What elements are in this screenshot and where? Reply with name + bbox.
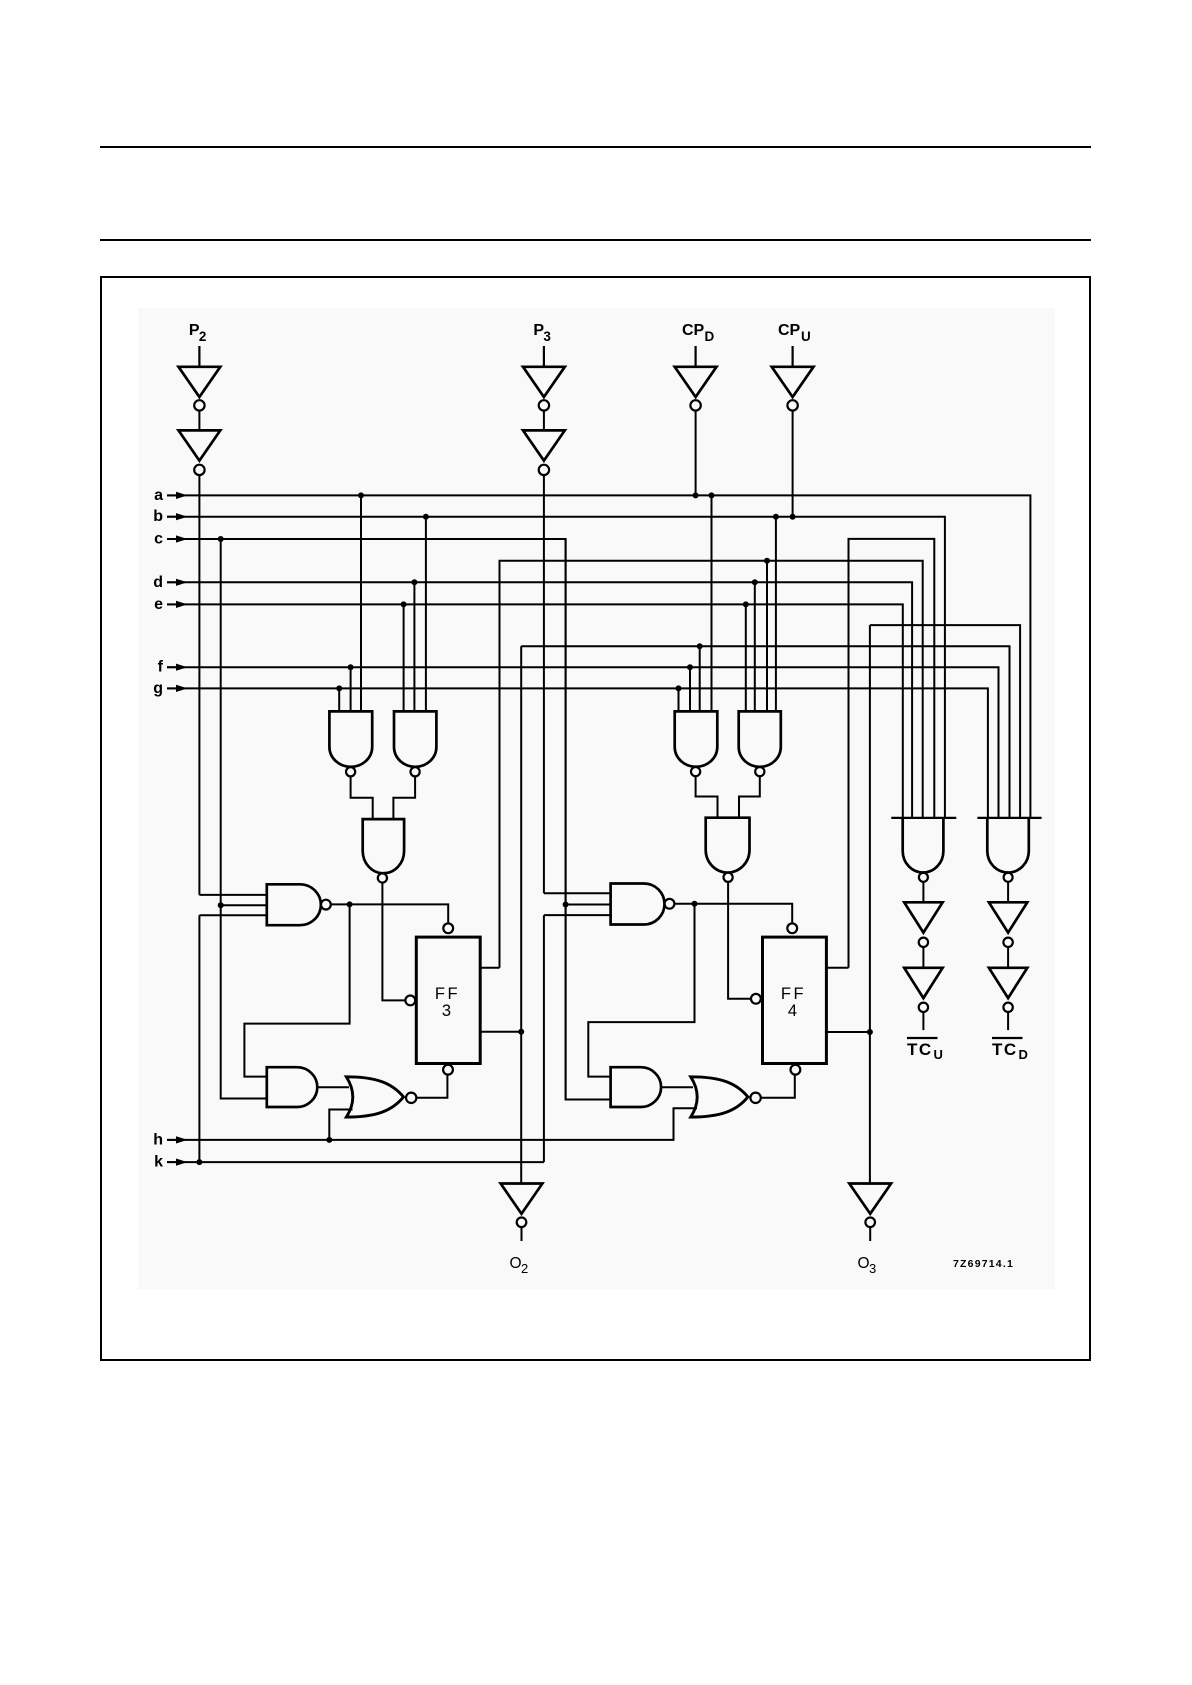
- and gate G3: [675, 711, 718, 766]
- junction h branch to U5: [326, 1137, 332, 1143]
- inverter P2 second output bubble: [194, 465, 204, 475]
- bubble FF4 D left: [751, 994, 761, 1004]
- wire P3 between inverters: [543, 411, 545, 431]
- wire O3 tail: [869, 1227, 871, 1241]
- bubble U5 output: [406, 1093, 416, 1103]
- wire P2 between inverters: [198, 411, 200, 431]
- wire CPU stub into inverter: [791, 346, 793, 367]
- bubble FF4 set bottom: [791, 1065, 801, 1075]
- junction a to G1: [358, 492, 364, 498]
- inverter TCU first: [904, 902, 942, 932]
- wire b drop to gate G2: [425, 517, 427, 712]
- flip-flop FF3 box: [416, 937, 480, 1063]
- wire P3 vertical into NAND U2: [543, 475, 545, 893]
- wire TCU output tail: [922, 1012, 924, 1030]
- inverter TCD second: [989, 968, 1027, 998]
- wire c branch stub to NAND U1 input2: [221, 904, 267, 906]
- wire net FF3-Qbar to G4 and TCU: [500, 561, 923, 968]
- nor gate U6: [691, 1077, 748, 1117]
- wire P2 stub to NAND U1 input1: [199, 894, 266, 896]
- wire net FF3-Qbar branch to gate G4: [766, 561, 768, 712]
- wire G1 output step to gate G5: [351, 777, 373, 820]
- label TCU overline: [907, 1037, 938, 1039]
- wire U1 output to FF3 clock: [331, 904, 448, 923]
- nand gate U2: [611, 884, 665, 925]
- wire k branch vertical from NAND U1 input3: [198, 915, 200, 1162]
- junction net FF3-Q branch: [697, 643, 703, 649]
- wire net FF4-Qbar to TCU: [849, 539, 935, 968]
- svg-text:3: 3: [869, 1261, 876, 1276]
- svg-text:U: U: [934, 1047, 943, 1062]
- junction c branch on line c: [218, 536, 224, 542]
- nand gate U1: [267, 884, 321, 925]
- bubble G2 output: [411, 767, 420, 776]
- svg-text:c: c: [154, 531, 163, 548]
- wire node f: [167, 667, 999, 818]
- wire b drop to gate G4: [775, 517, 777, 712]
- inverter CPU triangle: [772, 367, 814, 397]
- inverter CPD triangle: [675, 367, 717, 397]
- wire TCU gate to first inverter: [922, 882, 924, 903]
- wire node k: [167, 1161, 544, 1163]
- wire FF4 Qbar out right: [826, 967, 848, 969]
- inverter P3 first output bubble: [539, 400, 549, 410]
- bubble G5 output: [378, 873, 387, 882]
- svg-text:2: 2: [521, 1261, 528, 1276]
- junction U1 output branch: [347, 901, 353, 907]
- junction b to G2: [423, 514, 429, 520]
- bubble O2 output: [517, 1218, 527, 1228]
- svg-text:TC: TC: [907, 1040, 933, 1059]
- wire node h: [167, 1108, 697, 1140]
- svg-text:g: g: [153, 680, 163, 697]
- wire d drop to gate G2: [413, 582, 415, 711]
- bubble TCU first inverter: [919, 938, 928, 947]
- wire TCD gate input bar: [977, 817, 1041, 819]
- wire node d: [167, 582, 912, 818]
- svg-text:O: O: [858, 1255, 870, 1272]
- bubble O3 output: [865, 1218, 875, 1228]
- wire U4 output to NOR U6: [661, 1086, 693, 1088]
- wire net FF3-Q to O2 and TCD: [521, 646, 1009, 1183]
- wire c right branch stub to NAND U2 input2: [566, 904, 611, 906]
- wire k branch vertical from NAND U2 input3: [543, 915, 545, 1162]
- junction net FF3-Qbar branch: [764, 558, 770, 564]
- svg-text:3: 3: [442, 1002, 451, 1020]
- label TCD overline: [992, 1037, 1023, 1039]
- wire f drop to gate G1: [350, 667, 352, 711]
- inverter P2 second triangle: [179, 430, 221, 460]
- svg-text:U: U: [801, 329, 811, 344]
- junction g to G3: [676, 685, 682, 691]
- bubble U1 output: [321, 900, 331, 910]
- and gate G4: [739, 711, 781, 766]
- wire U5 output up to FF3 set: [416, 1075, 447, 1098]
- wire f drop to gate G3: [689, 667, 691, 711]
- junction CPU on line b: [790, 514, 796, 520]
- wire e drop to gate G2: [403, 604, 405, 711]
- wire g drop to gate G1: [338, 688, 340, 711]
- and gate G2: [394, 711, 436, 766]
- wire node g: [167, 688, 988, 818]
- svg-text:FF: FF: [781, 985, 806, 1003]
- junction g to G1: [336, 685, 342, 691]
- wire P2 stub into first inverter: [198, 346, 200, 367]
- nand gate TCU: [903, 818, 944, 873]
- and gate G5 merge: [363, 819, 404, 873]
- svg-text:D: D: [705, 329, 715, 344]
- bubble G4 output: [755, 767, 764, 776]
- inverter P3 second output bubble: [539, 465, 549, 475]
- wire FF3 Q out right: [480, 1031, 521, 1033]
- input arrow h: [167, 1139, 178, 1141]
- bubble TCD first inverter: [1003, 938, 1012, 947]
- wire P3 stub to NAND U2 input1: [544, 892, 611, 894]
- wire e drop to gate G4: [745, 604, 747, 711]
- inverter CPU output bubble: [787, 400, 797, 410]
- inverter O2 triangle: [501, 1184, 543, 1214]
- wire G5 output to FF3 D bubble: [382, 883, 405, 1001]
- wire a drop to gate G1: [360, 495, 362, 711]
- wire U1 output loop to AND U3: [244, 904, 349, 1076]
- wire c right branch vertical to NAND U2 and AND U4: [565, 539, 567, 1100]
- input arrow c: [167, 538, 178, 540]
- svg-text:D: D: [1019, 1047, 1028, 1062]
- wire node a: [167, 495, 1030, 818]
- wire FF3 Qbar out right: [480, 967, 499, 969]
- junction d to G4: [752, 579, 758, 585]
- bubble TCD gate output: [1004, 873, 1013, 882]
- junction a to G3: [709, 492, 715, 498]
- inverter O3 triangle: [849, 1184, 891, 1214]
- bubble TCD second inverter: [1003, 1003, 1012, 1012]
- svg-text:4: 4: [788, 1002, 797, 1020]
- svg-text:TC: TC: [992, 1040, 1018, 1059]
- wire CPD stub into inverter: [694, 346, 696, 367]
- junction e to G2: [401, 601, 407, 607]
- and gate U3: [267, 1067, 318, 1107]
- wire h branch up to NOR U5: [329, 1110, 352, 1140]
- wire d drop to gate G4: [754, 582, 756, 711]
- and gate G1: [329, 711, 372, 766]
- wire U2 output loop to AND U4: [588, 904, 694, 1077]
- and gate U4: [611, 1067, 662, 1107]
- junction FF3 Q with O2 drop: [518, 1029, 524, 1035]
- top horizontal rule: [100, 146, 1091, 148]
- junction P2 vertical on line k: [196, 1159, 202, 1165]
- and gate G6 merge: [706, 818, 750, 873]
- flip-flop FF4 box: [763, 937, 827, 1063]
- wire G3 output step to gate G6: [696, 776, 718, 817]
- input arrow f: [167, 666, 178, 668]
- junction d to G2: [411, 579, 417, 585]
- wire CPU inverter output down to line b: [792, 411, 794, 517]
- wire P3 stub into first inverter: [543, 346, 545, 367]
- wire k stub to NAND U1 input3: [199, 914, 266, 916]
- junction f to G1: [348, 664, 354, 670]
- wire U6 output up to FF4 set: [761, 1075, 795, 1098]
- input arrow b: [167, 516, 178, 518]
- wire a drop to gate G3: [711, 495, 713, 711]
- wire CPD inverter output down to line a: [695, 411, 697, 496]
- wire net FF4-Q to O3 and TCD: [870, 625, 1020, 1183]
- inverter CPD output bubble: [690, 400, 700, 410]
- input arrow e: [167, 603, 178, 605]
- junction b to G4: [773, 514, 779, 520]
- junction U2 output branch: [692, 901, 698, 907]
- wire c branch vertical to NAND U1 and AND U3: [221, 539, 267, 1099]
- wire TCD between inverters: [1007, 947, 1009, 968]
- wire TCD gate to first inverter: [1007, 882, 1009, 903]
- wire node e: [167, 604, 903, 818]
- bubble FF3 clock top: [443, 923, 453, 933]
- bubble G1 output: [346, 767, 355, 776]
- svg-text:a: a: [154, 487, 163, 504]
- input arrow d: [167, 581, 178, 583]
- svg-text:CP: CP: [778, 322, 801, 339]
- wire G2 output step to gate G5: [393, 777, 415, 820]
- svg-text:f: f: [158, 659, 164, 676]
- inverter P3 second triangle: [523, 430, 565, 460]
- diagram frame box: [100, 276, 1091, 1361]
- wire TCD output tail: [1007, 1012, 1009, 1030]
- inverter P3 first triangle: [523, 367, 565, 397]
- wire node b: [167, 517, 945, 818]
- wire net FF3-Q branch to gate G3: [699, 646, 701, 711]
- svg-text:7Z69714.1: 7Z69714.1: [953, 1258, 1014, 1270]
- wire k stub to NAND U2 input3: [544, 914, 611, 916]
- scanned diagram background: [138, 308, 1056, 1290]
- nor gate U5: [346, 1077, 403, 1117]
- svg-text:3: 3: [543, 329, 551, 344]
- bubble G3 output: [691, 767, 700, 776]
- bubble FF4 clock top: [787, 923, 797, 933]
- svg-text:b: b: [153, 508, 163, 525]
- bubble U2 output: [665, 899, 675, 909]
- bubble U6 output: [750, 1093, 760, 1103]
- inverter TCD first: [989, 902, 1027, 932]
- nand gate TCD: [987, 818, 1029, 873]
- bubble FF3 D left: [405, 996, 415, 1006]
- inverter P2 first output bubble: [194, 400, 204, 410]
- junction e to G4: [743, 601, 749, 607]
- wire G6 output to FF4 D bubble: [728, 882, 751, 999]
- inverter P2 first triangle: [179, 367, 221, 397]
- junction FF4 Q with O3 drop: [867, 1029, 873, 1035]
- bubble TCU gate output: [919, 873, 928, 882]
- svg-text:FF: FF: [435, 985, 460, 1003]
- bubble TCU second inverter: [919, 1003, 928, 1012]
- wire O2 tail: [521, 1227, 523, 1241]
- svg-text:h: h: [153, 1131, 163, 1148]
- svg-text:CP: CP: [682, 322, 705, 339]
- wire U2 output to FF4 clock: [675, 904, 793, 924]
- svg-text:k: k: [154, 1154, 163, 1171]
- input arrow a: [167, 494, 178, 496]
- wire P2 vertical into NAND U1: [198, 475, 200, 895]
- wire FF4 Q out right: [826, 1031, 870, 1033]
- svg-text:2: 2: [199, 329, 207, 344]
- inverter TCU second: [904, 968, 942, 998]
- junction c right branch at NAND U2 input2: [563, 902, 569, 908]
- svg-text:O: O: [510, 1255, 522, 1272]
- wire g drop to gate G3: [678, 688, 680, 711]
- svg-text:d: d: [153, 574, 163, 591]
- svg-text:e: e: [154, 596, 163, 613]
- second horizontal rule: [100, 239, 1091, 241]
- wire node c: [167, 539, 610, 1100]
- wire G4 output step to gate G6: [739, 776, 760, 817]
- wire TCU gate input bar: [891, 817, 956, 819]
- bubble G6 output: [724, 873, 733, 882]
- input arrow k: [167, 1161, 178, 1163]
- wire U3 output to NOR U5: [317, 1086, 349, 1088]
- bubble FF3 set bottom: [443, 1065, 453, 1075]
- junction CPD on line a: [693, 492, 699, 498]
- junction f to G3: [687, 664, 693, 670]
- wire TCU between inverters: [922, 947, 924, 968]
- junction c branch at NAND U1 input2: [218, 902, 224, 908]
- input arrow g: [167, 687, 178, 689]
